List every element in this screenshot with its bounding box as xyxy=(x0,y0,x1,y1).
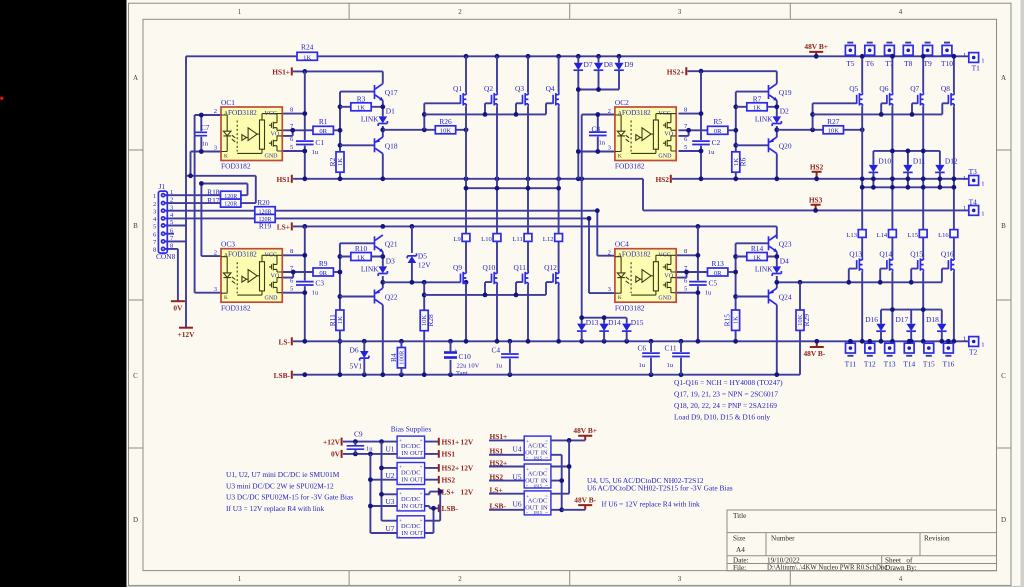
wire: OC2 pin6 jog xyxy=(679,130,689,136)
column tick marks top xyxy=(349,3,790,19)
wire: +12V distribution vertical xyxy=(382,442,398,521)
resistor R18 xyxy=(221,191,241,199)
svg-text:D14: D14 xyxy=(608,318,621,327)
svg-text:L13: L13 xyxy=(846,232,857,239)
svg-text:10K: 10K xyxy=(828,128,840,135)
svg-text:D7: D7 xyxy=(584,60,593,69)
svg-text:1K: 1K xyxy=(733,158,740,166)
opto OC3 xyxy=(221,249,282,303)
svg-text:T16: T16 xyxy=(942,360,954,369)
power 48V B- symbol xyxy=(810,341,824,347)
svg-text:D9: D9 xyxy=(624,60,633,69)
svg-text:1u: 1u xyxy=(667,362,674,369)
port HS1+ 12V out xyxy=(438,438,440,446)
zener D5 xyxy=(411,226,413,282)
transistor Q22 xyxy=(375,288,383,305)
wire: Q21/Q22 base vertical xyxy=(339,243,341,374)
transistor Q23 xyxy=(769,235,778,252)
svg-text:R10: R10 xyxy=(355,244,368,253)
wire: base to Q24 xyxy=(736,296,769,298)
svg-text:R27: R27 xyxy=(827,117,840,126)
junctions on HS2 rail right xyxy=(860,176,865,181)
capacitor C1 xyxy=(296,141,314,144)
wire: R9 out to base node xyxy=(333,271,340,273)
capacitor C8 xyxy=(597,115,599,152)
resistor R11 xyxy=(336,310,344,330)
wire: Q8 column xyxy=(953,56,955,341)
zener D6 xyxy=(363,341,365,374)
svg-text:T6: T6 xyxy=(866,59,875,68)
svg-text:R13: R13 xyxy=(712,259,725,268)
svg-text:Q17, 19, 21, 23 = NPN = 2SC601: Q17, 19, 21, 23 = NPN = 2SC6017 xyxy=(674,390,778,399)
wire: D2 to gate drive node xyxy=(776,126,778,137)
svg-text:L16: L16 xyxy=(938,232,949,239)
wire: R5 out to base node xyxy=(728,129,736,131)
port HS1 out xyxy=(438,450,440,458)
power +12V symbol xyxy=(179,327,193,329)
svg-text:HS1+: HS1+ xyxy=(442,437,460,446)
svg-text:T14: T14 xyxy=(903,360,915,369)
wire: +12V feed xyxy=(343,441,397,443)
svg-text:C6: C6 xyxy=(638,343,647,352)
resistor R19 xyxy=(255,214,275,222)
diode D15 xyxy=(622,324,632,332)
transistor Q10 xyxy=(492,271,498,285)
diode D7 xyxy=(574,63,584,70)
terminal T2 xyxy=(969,337,979,347)
svg-text:0V: 0V xyxy=(173,304,183,313)
svg-text:D13: D13 xyxy=(586,318,599,327)
wire: Q19/Q20 base vertical xyxy=(735,92,737,179)
svg-text:R1: R1 xyxy=(319,117,328,126)
resistor R10 xyxy=(351,253,371,261)
svg-text:T15: T15 xyxy=(923,360,935,369)
ac/dc U5 xyxy=(524,464,551,489)
wire: OC2 pin2 with long vertical to D13 bus xyxy=(582,115,615,318)
transistor Q6 xyxy=(887,92,893,106)
wire: AC neutral bus xyxy=(551,455,562,510)
wire: OC1 pin2 xyxy=(195,114,221,116)
svg-text:Q23: Q23 xyxy=(779,239,792,248)
svg-text:R6: R6 xyxy=(739,157,748,166)
svg-text:1: 1 xyxy=(153,193,156,200)
wire: D13-D15 anode bus xyxy=(582,317,627,319)
wire: OC1 VCC vertical with C1 break xyxy=(304,71,306,178)
svg-text:OC1: OC1 xyxy=(221,98,235,107)
wire: OC1 pin3 xyxy=(191,151,222,153)
wire: Q1 gate feed xyxy=(424,103,460,130)
svg-text:Q21: Q21 xyxy=(385,239,398,248)
svg-text:LINK: LINK xyxy=(755,115,773,124)
wire: D11 leads xyxy=(907,151,909,187)
svg-text:48V B+: 48V B+ xyxy=(573,426,597,435)
wire: gate bus Q13-Q16 xyxy=(777,269,949,283)
transistor Q19 xyxy=(769,84,778,101)
svg-text:1u: 1u xyxy=(708,149,715,156)
junction dots on top rail xyxy=(464,54,469,59)
svg-text:0R: 0R xyxy=(714,128,722,135)
wire: Q5 column xyxy=(861,56,863,341)
wire: gate drive line to R27 and Q5 xyxy=(777,129,862,131)
svg-text:Tant.: Tant. xyxy=(456,370,470,377)
svg-text:Load D9, D10, D15 & D16 only: Load D9, D10, D15 & D16 only xyxy=(674,413,770,422)
wire: Q21 emitter to D3 xyxy=(382,252,384,267)
svg-text:T8: T8 xyxy=(904,59,913,68)
svg-text:T2: T2 xyxy=(969,348,978,357)
svg-text:U3 mini DC/DC 2W ie SPU02M-12: U3 mini DC/DC 2W ie SPU02M-12 xyxy=(226,481,334,490)
wire: R7 links xyxy=(736,106,777,108)
transistor Q9 xyxy=(461,271,467,285)
svg-text:1: 1 xyxy=(981,210,984,217)
svg-text:U3 DC/DC SPU02M-15 for -3V Ga: U3 DC/DC SPU02M-15 for -3V Gate Bias xyxy=(226,493,353,502)
svg-text:2: 2 xyxy=(458,8,462,16)
svg-text:Q24: Q24 xyxy=(779,293,792,302)
svg-text:Size: Size xyxy=(733,535,745,543)
svg-text:A: A xyxy=(1001,74,1006,82)
wire: Q3 column xyxy=(527,56,529,341)
resistor R7 xyxy=(747,103,767,111)
svg-text:HS1: HS1 xyxy=(442,450,456,459)
svg-text:Q15: Q15 xyxy=(910,250,923,259)
wire: OC1 pin7 to R1 xyxy=(282,129,313,131)
wire: Q5 gate feed xyxy=(813,103,857,130)
resistor R9 xyxy=(313,268,333,276)
dc/dc U2 xyxy=(397,463,425,486)
wire: OC1 pin6 jog xyxy=(282,130,292,136)
wire: gate drive line to Q9 xyxy=(383,281,461,283)
wire: U4 AC input to 48V B+ xyxy=(551,439,585,441)
svg-text:Q9: Q9 xyxy=(453,263,462,272)
terminal T1 xyxy=(969,53,979,63)
wire: OC1 pin3 riser xyxy=(190,152,192,176)
junction on R17 feed line xyxy=(188,173,193,178)
svg-text:0R: 0R xyxy=(714,270,722,277)
svg-text:L12: L12 xyxy=(543,236,554,243)
wire: J1 pin2 to R17 xyxy=(165,202,220,204)
resistor R28 xyxy=(420,310,428,330)
wire: D4 to gate drive node xyxy=(776,276,778,288)
wire: OC3 pin5 xyxy=(282,292,305,294)
svg-text:D17: D17 xyxy=(895,315,908,324)
svg-text:0R: 0R xyxy=(319,128,327,135)
wire: HS1 rail with jog to T4 xyxy=(293,179,969,211)
svg-text:Title: Title xyxy=(733,512,746,520)
capacitor C9 xyxy=(354,442,356,454)
svg-text:T1: T1 xyxy=(972,63,981,72)
transistor Q3 xyxy=(523,92,529,106)
wire: OC2 pin3 xyxy=(578,151,615,153)
diode D3 LINK zener xyxy=(378,266,387,276)
svg-text:D10: D10 xyxy=(878,157,891,166)
svg-text:R15: R15 xyxy=(723,314,732,327)
row tick marks right xyxy=(997,150,1012,448)
wire: OC2 pin8 xyxy=(679,113,702,115)
wire: U7 outputs join xyxy=(425,492,441,533)
terminal T12 xyxy=(865,343,875,353)
opto OC1 xyxy=(221,107,282,161)
svg-text:File:: File: xyxy=(733,564,746,572)
dc/dc U7 xyxy=(397,516,425,539)
svg-text:D: D xyxy=(133,516,138,524)
transistor Q17 xyxy=(375,84,384,101)
svg-text:1: 1 xyxy=(238,8,242,16)
resistor R24 xyxy=(297,52,317,60)
svg-text:T11: T11 xyxy=(845,360,857,369)
svg-text:L14: L14 xyxy=(877,232,888,239)
diode D16 xyxy=(876,324,886,332)
red cursor dot on black margin xyxy=(0,97,3,100)
svg-text:LS+: LS+ xyxy=(277,223,290,232)
wire: R28 drop xyxy=(423,282,425,374)
diode D14 xyxy=(599,324,609,332)
transistor Q16 xyxy=(948,258,954,272)
terminal T3 xyxy=(969,176,979,186)
svg-text:C: C xyxy=(1001,372,1006,380)
wire: R10 links xyxy=(340,256,383,258)
svg-text:1: 1 xyxy=(981,180,984,187)
svg-text:U1, U2, U7 mini DC/DC ie SMU01: U1, U2, U7 mini DC/DC ie SMU01M xyxy=(226,470,340,479)
wire: base to Q21 xyxy=(340,242,375,244)
svg-text:LINK: LINK xyxy=(361,265,379,274)
svg-text:D2: D2 xyxy=(780,106,789,115)
capacitor C10 xyxy=(450,341,452,374)
wire: base to Q20 xyxy=(736,144,769,146)
wire: gate bus Q6-Q8 xyxy=(813,103,949,114)
svg-text:HS2: HS2 xyxy=(442,475,456,484)
wire: Q6 column xyxy=(891,56,893,341)
port LSB- out xyxy=(438,505,440,513)
wire: R17 feed line xyxy=(186,176,256,203)
svg-text:1u: 1u xyxy=(366,445,373,452)
wire: Q17/Q18 base vertical xyxy=(339,92,341,179)
wire: R3 links xyxy=(340,106,383,108)
svg-text:1: 1 xyxy=(963,175,966,182)
svg-text:1: 1 xyxy=(963,52,966,59)
terminal T16 xyxy=(944,343,954,353)
inductor L16 xyxy=(950,230,958,238)
svg-text:1K: 1K xyxy=(337,316,344,324)
svg-text:1: 1 xyxy=(981,58,984,65)
svg-text:Q11: Q11 xyxy=(514,263,527,272)
svg-text:If U3 = 12V replace R4 with li: If U3 = 12V replace R4 with link xyxy=(226,504,325,513)
svg-text:U6 AC/DCtoDC NH02-T2S15 for -3: U6 AC/DCtoDC NH02-T2S15 for -3V Gate Bia… xyxy=(587,483,733,492)
transistor Q14 xyxy=(887,258,893,272)
svg-text:1K: 1K xyxy=(357,254,365,261)
svg-text:A: A xyxy=(133,74,138,82)
svg-text:D4: D4 xyxy=(780,256,789,265)
wire: J1 pin7 xyxy=(165,240,186,242)
svg-text:1K: 1K xyxy=(357,105,365,112)
svg-text:C5: C5 xyxy=(709,279,718,288)
wire: OC2 VCC vertical with C2 break xyxy=(700,71,702,179)
svg-text:LINK: LINK xyxy=(361,115,379,124)
capacitor C7 xyxy=(200,115,202,152)
svg-text:+12V: +12V xyxy=(178,330,196,339)
svg-text:19/10/2022: 19/10/2022 xyxy=(767,556,800,564)
diode D8 xyxy=(594,63,604,70)
svg-text:U6: U6 xyxy=(513,499,522,508)
transistor Q15 xyxy=(918,258,924,272)
svg-text:Q5: Q5 xyxy=(849,84,858,93)
svg-text:R11: R11 xyxy=(328,314,337,326)
svg-text:1: 1 xyxy=(238,575,242,583)
resistor R26 xyxy=(435,126,455,134)
wire: LSB- rail xyxy=(293,374,800,376)
resistor R6 xyxy=(732,152,740,172)
wire: OC4 pin7 to R13 xyxy=(676,271,707,273)
svg-text:OC2: OC2 xyxy=(615,98,629,107)
svg-text:D1: D1 xyxy=(386,106,395,115)
wire: D7-D9 cathode bus xyxy=(578,89,619,91)
svg-text:C8: C8 xyxy=(592,124,601,133)
wire: OC3 pin6 jog xyxy=(282,272,293,278)
transistor Q2 xyxy=(492,92,498,106)
svg-text:Q12: Q12 xyxy=(544,263,557,272)
terminal T9 xyxy=(923,45,933,55)
wire: gate bus Q10-Q12 xyxy=(424,282,552,295)
wire: D9 leads xyxy=(618,56,620,89)
wire: OC4 VCC vertical with C5 break xyxy=(697,226,699,341)
power 48V B- bias symbol xyxy=(578,505,592,510)
svg-text:1K: 1K xyxy=(303,54,311,61)
terminal T7 xyxy=(885,45,895,55)
svg-text:FOD3182: FOD3182 xyxy=(615,303,645,312)
svg-text:2: 2 xyxy=(608,250,611,257)
diode D17 xyxy=(906,324,916,332)
svg-text:L9: L9 xyxy=(453,236,461,243)
svg-text:HS1: HS1 xyxy=(276,175,290,184)
wire: OC2 pin5 xyxy=(679,150,702,152)
svg-text:2: 2 xyxy=(153,201,156,208)
resistor R15 xyxy=(732,310,740,330)
svg-text:Q18, 20, 22, 24 = PNP = 2SA216: Q18, 20, 22, 24 = PNP = 2SA2169 xyxy=(674,401,777,410)
svg-text:Bias Supplies: Bias Supplies xyxy=(391,425,432,434)
svg-text:Q22: Q22 xyxy=(385,293,398,302)
wire: U3 outputs xyxy=(425,492,439,509)
svg-text:120R: 120R xyxy=(258,217,271,223)
wire: D16-D18 anode bus xyxy=(881,309,942,311)
terminal T13 xyxy=(885,343,895,353)
transistor Q18 xyxy=(375,137,383,154)
svg-text:D11: D11 xyxy=(913,157,926,166)
svg-text:Q19: Q19 xyxy=(779,88,792,97)
svg-text:C9: C9 xyxy=(354,430,363,439)
svg-text:D8: D8 xyxy=(604,60,613,69)
svg-text:HS2: HS2 xyxy=(810,162,824,171)
svg-text:C1: C1 xyxy=(315,138,324,147)
wire: R20 line to OC4 pin2 xyxy=(275,211,615,256)
svg-text:R26: R26 xyxy=(439,117,452,126)
svg-text:R20: R20 xyxy=(257,198,270,207)
svg-text:LSB-: LSB- xyxy=(274,371,291,380)
wire: base to Q19 xyxy=(736,91,769,93)
inductor L13 xyxy=(858,230,866,238)
wire: J1 pin5 to +12V rail xyxy=(165,225,186,227)
svg-text:1: 1 xyxy=(170,189,173,196)
svg-text:12V: 12V xyxy=(461,437,474,446)
svg-text:T12: T12 xyxy=(864,360,876,369)
wire: OC1 pin8 xyxy=(282,113,305,115)
wire: AC hot bus xyxy=(551,440,569,493)
svg-text:HS3: HS3 xyxy=(809,195,823,204)
wire: D18 leads xyxy=(941,310,943,342)
svg-text:LSB-: LSB- xyxy=(442,504,459,513)
wire: 0V feed xyxy=(343,453,397,455)
row tick marks left xyxy=(129,150,144,448)
transistor Q11 xyxy=(523,271,529,285)
wire: HS2 rail to T3 xyxy=(672,178,969,180)
power 0V symbol xyxy=(171,300,185,302)
wire: OC3 pin3 xyxy=(195,292,221,294)
resistor R13 xyxy=(708,268,728,276)
svg-text:C10: C10 xyxy=(459,352,472,361)
inductor L10 xyxy=(493,234,501,242)
svg-text:LS-: LS- xyxy=(278,338,290,347)
transistor Q4 xyxy=(553,92,559,106)
svg-text:10K: 10K xyxy=(421,315,428,327)
svg-text:1u: 1u xyxy=(705,289,712,296)
svg-text:2: 2 xyxy=(458,575,462,583)
wire: left +12V vertical rail xyxy=(185,56,187,327)
wire: D17 leads xyxy=(910,310,912,342)
wire: Q18 collector to HS1 xyxy=(382,154,384,179)
wire: OC2 pin7 to R5 xyxy=(679,129,708,131)
svg-text:OC4: OC4 xyxy=(615,240,629,249)
wire: base to Q18 xyxy=(340,144,375,146)
wire: J1 pin6 stub xyxy=(165,233,174,235)
wire: OC1 pin5 xyxy=(282,150,305,152)
diode D12 xyxy=(935,165,945,173)
wire: R14 links xyxy=(736,256,777,258)
resistor R29 xyxy=(796,310,804,330)
svg-text:0V: 0V xyxy=(331,450,341,459)
wire: LS+ rail xyxy=(293,226,777,238)
wire: R19 line to OC4 pin3 xyxy=(275,218,615,293)
wire: base to Q23 xyxy=(736,242,769,244)
wire: J1 pin4 to R19 xyxy=(165,217,255,219)
inductor L15 xyxy=(919,230,927,238)
svg-text:Q1: Q1 xyxy=(453,84,462,93)
svg-text:12V: 12V xyxy=(461,464,474,473)
svg-text:CON8: CON8 xyxy=(156,252,176,261)
wire: base to Q22 xyxy=(340,296,375,298)
wire: OC4 pin8 xyxy=(676,254,698,256)
capacitor C5 xyxy=(689,282,707,285)
junctions on LSB- rail xyxy=(302,372,307,377)
diode D18 xyxy=(937,324,947,332)
wire: D13 leads xyxy=(581,318,583,342)
svg-text:1K: 1K xyxy=(337,158,344,166)
svg-text:C2: C2 xyxy=(712,138,721,147)
terminal T10 xyxy=(942,45,952,55)
svg-text:12V: 12V xyxy=(461,487,474,496)
svg-text:4: 4 xyxy=(899,8,903,16)
wire: D7 leads xyxy=(577,56,579,179)
svg-text:2: 2 xyxy=(214,250,217,257)
svg-text:1u: 1u xyxy=(496,362,503,369)
transistor Q7 xyxy=(918,92,924,106)
wire: top +12V/B+ rail left segment xyxy=(186,55,297,57)
svg-text:C7: C7 xyxy=(201,123,210,132)
wire: D8 leads xyxy=(598,56,600,89)
svg-text:U2: U2 xyxy=(385,471,394,480)
svg-text:U7: U7 xyxy=(385,524,394,533)
svg-text:Q2: Q2 xyxy=(484,84,493,93)
wire: LS- / 48V B- rail xyxy=(293,340,969,342)
svg-text:Q7: Q7 xyxy=(910,84,919,93)
svg-text:3: 3 xyxy=(678,575,682,583)
wire: U2 outputs xyxy=(425,468,439,480)
